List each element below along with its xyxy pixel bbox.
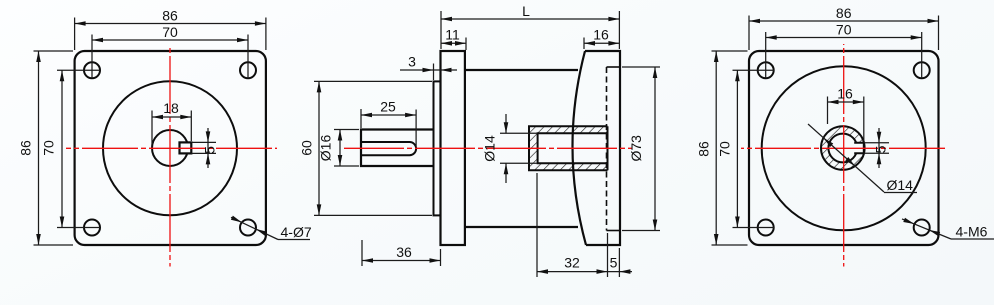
dimension 5 rear plate — [608, 248, 633, 277]
dimension 5 keyway rear — [864, 128, 889, 168]
rear corner hole top-right — [914, 62, 930, 78]
svg-text:11: 11 — [445, 27, 460, 43]
motor silhouette arc — [572, 51, 586, 245]
gearbox flange block 11mm — [441, 51, 465, 245]
hollow shaft boss outline — [529, 126, 608, 170]
rear centerline vertical red — [843, 44, 845, 267]
dimension Ø14 bore middle — [482, 114, 537, 183]
leader Ø14 rear bore — [808, 124, 917, 193]
svg-text:70: 70 — [162, 24, 178, 40]
dimension 18 bore-to-key — [152, 100, 191, 144]
dimension L — [441, 3, 619, 49]
svg-text:5: 5 — [873, 145, 889, 153]
svg-text:70: 70 — [836, 22, 852, 38]
corner hole top-right — [240, 62, 256, 78]
svg-text:18: 18 — [163, 100, 179, 116]
stator hidden rectangle Ø73 — [607, 67, 621, 231]
svg-text:Ø16: Ø16 — [318, 135, 334, 162]
svg-text:70: 70 — [717, 141, 733, 157]
dimension 3 plate — [400, 54, 457, 81]
dimension 70 top — [92, 24, 248, 78]
rear flange block 16mm — [585, 51, 620, 245]
dimension 16 bore-to-key rear — [828, 86, 864, 142]
dimension 5 key height — [191, 128, 217, 168]
body top line — [465, 69, 578, 71]
hub bore circle Ø14 — [828, 134, 857, 163]
dimension 86 left rear — [696, 51, 748, 245]
svg-text:Ø14: Ø14 — [482, 135, 498, 162]
svg-text:16: 16 — [837, 86, 853, 102]
dimension 86 top — [75, 8, 266, 51]
svg-text:36: 36 — [396, 244, 412, 260]
svg-text:5: 5 — [610, 255, 618, 271]
svg-text:Ø73: Ø73 — [628, 135, 644, 162]
svg-text:3: 3 — [408, 54, 416, 70]
leader 4-M6 rear holes — [902, 218, 994, 240]
dimension 32 — [537, 173, 608, 277]
dimension 36 — [362, 240, 441, 266]
hub boss circle — [821, 126, 865, 170]
shaft bore Ø16 — [152, 130, 188, 166]
hollow shaft boss hatch — [529, 126, 608, 170]
dimension 70 left — [41, 70, 101, 227]
rear corner hole top-left — [758, 62, 774, 78]
svg-text:4-M6: 4-M6 — [956, 224, 988, 240]
boss section end line — [607, 126, 609, 170]
dimension 86 top rear — [749, 5, 939, 50]
dimension 60 plate — [299, 81, 433, 215]
dimension 70 left rear — [717, 70, 775, 227]
svg-text:Ø14: Ø14 — [887, 177, 914, 193]
svg-text:32: 32 — [564, 255, 580, 271]
dimension 11 — [441, 27, 466, 51]
dimension 16 rear width — [584, 27, 619, 50]
leader 4-Ø7 mounting holes — [231, 216, 312, 240]
svg-text:L: L — [522, 3, 530, 19]
body bottom line — [465, 226, 578, 228]
shaft keyway slot — [361, 142, 416, 155]
svg-text:5: 5 — [202, 146, 218, 154]
rear flange square body — [749, 51, 939, 245]
hub section hatch — [821, 126, 865, 170]
centerline vertical red — [169, 46, 171, 267]
dimension 25 shaft — [361, 99, 416, 147]
rear corner hole bottom-left — [758, 220, 774, 236]
motor body circle Ø73 — [762, 66, 926, 230]
corner hole bottom-right — [240, 220, 256, 236]
rear corner hole bottom-right — [914, 220, 930, 236]
dimension 70 top rear — [766, 22, 922, 79]
pilot circle Ø60 — [103, 81, 237, 215]
key cross-section square — [180, 142, 192, 153]
svg-text:86: 86 — [162, 8, 178, 24]
svg-text:86: 86 — [18, 140, 34, 156]
keyway notch — [854, 143, 864, 153]
centerline horizontal red — [66, 147, 277, 149]
svg-text:25: 25 — [380, 99, 396, 115]
front plate Ø60 side — [434, 81, 441, 215]
middle centerline red — [344, 147, 632, 149]
svg-text:60: 60 — [299, 140, 315, 156]
bore top line — [538, 133, 608, 163]
corner hole top-left — [84, 62, 100, 78]
svg-text:4-Ø7: 4-Ø7 — [281, 224, 312, 240]
svg-text:86: 86 — [696, 141, 712, 157]
dimension 86 left — [18, 51, 74, 245]
corner hole bottom-left — [84, 220, 100, 236]
dimension Ø16 shaft — [318, 130, 360, 167]
svg-text:70: 70 — [41, 140, 57, 156]
rear centerline horizontal red — [741, 147, 947, 149]
flange front view square body — [75, 51, 266, 245]
svg-text:16: 16 — [593, 27, 609, 43]
dimension Ø73 — [622, 67, 660, 231]
output shaft side view — [361, 130, 434, 167]
svg-text:86: 86 — [836, 5, 852, 21]
